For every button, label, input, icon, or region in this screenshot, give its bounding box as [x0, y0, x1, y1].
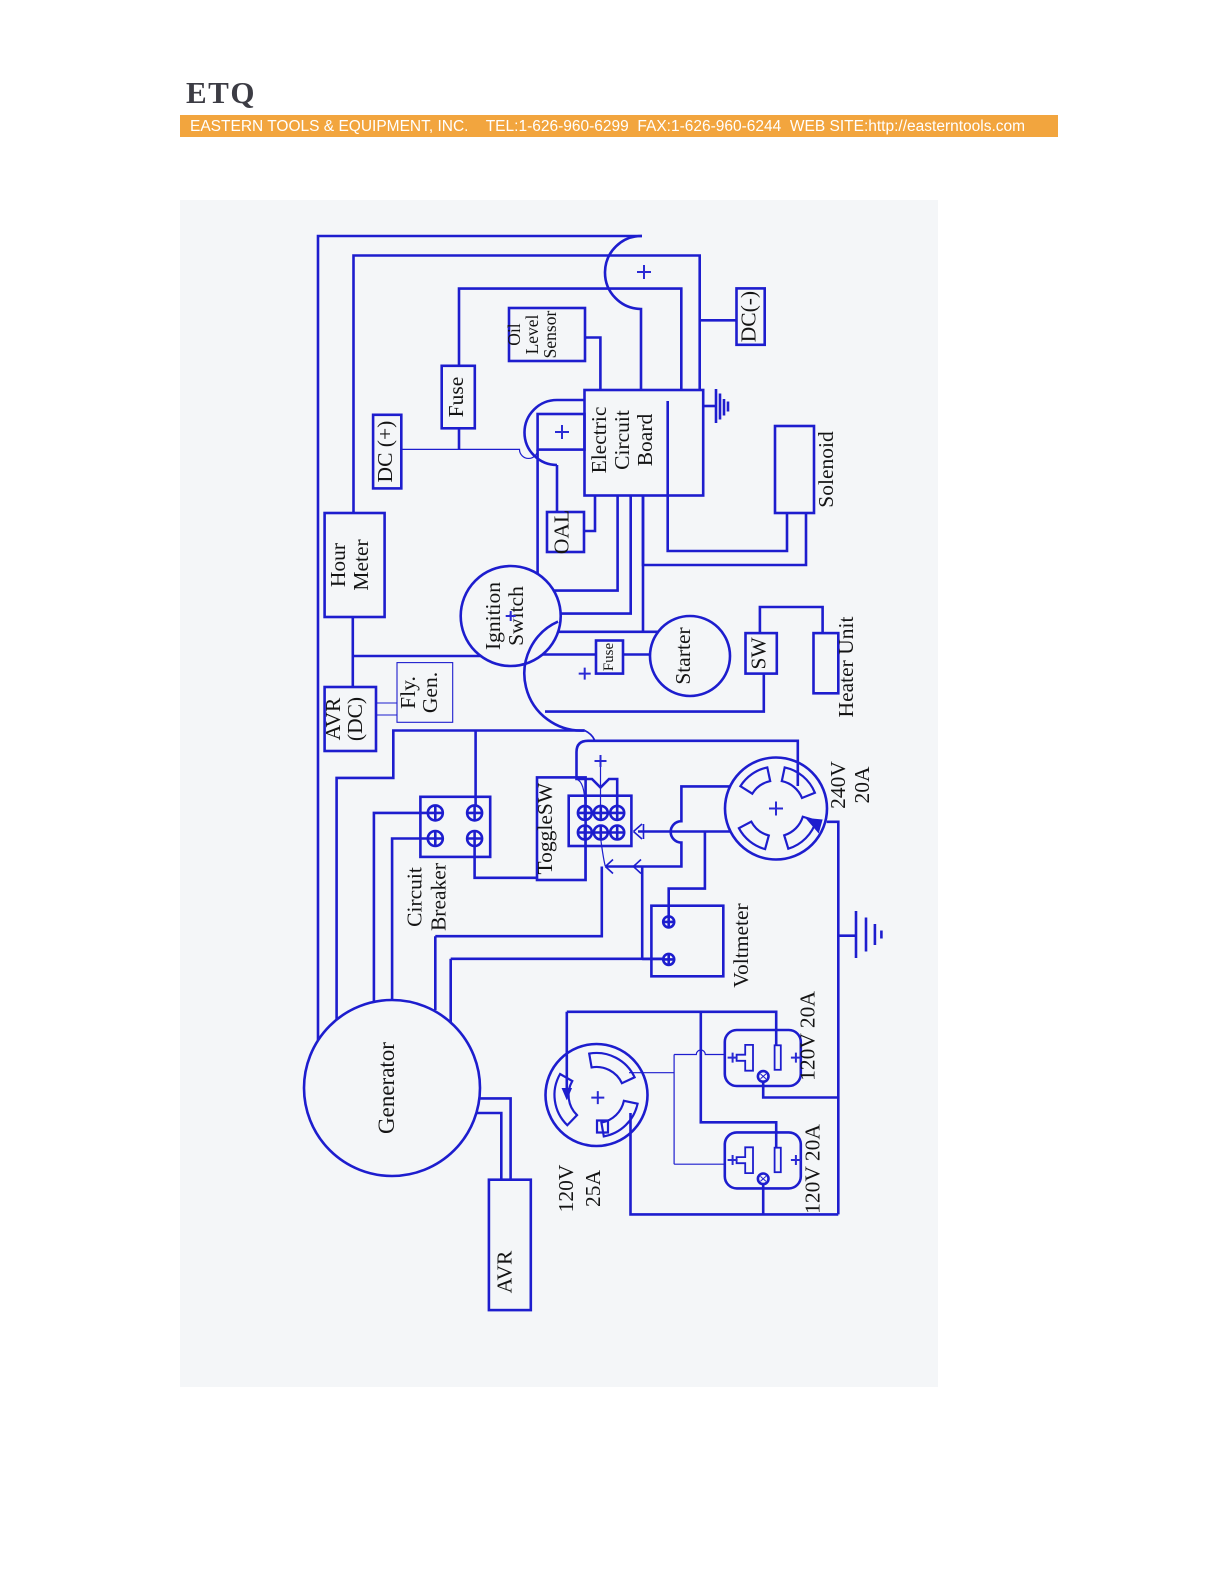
svg-text:25A: 25A	[581, 1170, 605, 1208]
svg-text:Sensor: Sensor	[540, 311, 560, 359]
node + ignition center	[506, 611, 516, 621]
svg-text:EASTERN TOOLS & EQUIPMENT, INC: EASTERN TOOLS & EQUIPMENT, INC. TEL:1-62…	[190, 118, 1025, 135]
svg-text:Fuse: Fuse	[601, 642, 617, 671]
arrow into toggle (H1)	[634, 824, 644, 839]
stub: toggle left contact to corner	[577, 779, 585, 805]
electric circuit board box U1	[585, 390, 704, 496]
ECB ground symbol	[703, 405, 716, 408]
wire: battery + bus top-left long line	[318, 236, 642, 1040]
wire: 25A feed from top bus	[565, 1012, 568, 1093]
AVR box	[489, 1180, 531, 1310]
wire: flylead node to toggle middle contact	[585, 731, 595, 741]
svg-text:Heater Unit: Heater Unit	[834, 617, 858, 718]
svg-text:Solenoid: Solenoid	[814, 431, 838, 508]
wire: generator neutral / voltmeter bottom	[641, 867, 644, 959]
wire: hour meter to AVR(DC) with ignition branch	[351, 617, 354, 687]
wire: duplex1 ground to rail	[763, 1082, 838, 1098]
node + duplex2 edges	[728, 1155, 738, 1165]
top bus to duplex1	[567, 1012, 776, 1046]
toggle switch contact box	[569, 796, 632, 846]
25A slot bottom-right hook	[597, 1101, 638, 1137]
arrows on neutral line	[605, 860, 641, 874]
25A slot top	[589, 1053, 634, 1083]
wire: breaker bottom-left to generator	[392, 839, 428, 1001]
node + 240V center	[769, 802, 783, 816]
svg-text:Ignition: Ignition	[481, 582, 505, 650]
TEXT LABELS (rotated)	[321, 291, 874, 1293]
240V receptacle body	[725, 758, 827, 860]
breaker contacts	[428, 805, 482, 846]
svg-text:Electric: Electric	[587, 407, 611, 474]
duplex2 bar slot	[775, 1148, 781, 1173]
wire hop over two verticals (top center)	[605, 236, 642, 390]
fuse F1 box	[442, 366, 475, 429]
wire: duplex2 ground to bottom rail	[762, 1184, 765, 1214]
ignition flylead arc	[524, 622, 584, 731]
wire: oil sensor to ECB	[585, 338, 600, 391]
wire: 240V right pin to main neutral rail	[827, 822, 839, 1215]
240V feed arrowhead	[807, 819, 823, 833]
240V slot SW	[739, 822, 769, 850]
25A slot left	[554, 1074, 577, 1125]
diagram background panel	[180, 200, 938, 1387]
svg-text:Fly.: Fly.	[396, 676, 420, 709]
svg-text:OAL: OAL	[550, 510, 574, 554]
wire: 240V neutral from outlet down-left with hop	[605, 786, 730, 866]
duplex1 bar slot	[775, 1045, 781, 1070]
duplex outlet 2 body	[725, 1132, 801, 1188]
toggle contacts	[578, 806, 624, 840]
svg-text:AVR: AVR	[321, 697, 345, 740]
wire: 25A ground slot to bottom rail	[631, 1113, 839, 1214]
duplex1 ground pin	[758, 1071, 769, 1082]
wires: AVR to fly gen	[376, 702, 397, 704]
voltmeter terminals	[663, 916, 674, 927]
svg-text:Meter: Meter	[349, 539, 373, 590]
wire: OAL to ECB	[584, 496, 595, 532]
svg-text:Board: Board	[633, 413, 657, 466]
stub: toggle mid-bottom contact to neutral	[601, 840, 606, 867]
node + toggle feed	[595, 755, 607, 767]
wire: voltmeter top tap	[669, 832, 705, 917]
ECB internal rail	[666, 401, 669, 496]
node + 25A center	[591, 1091, 604, 1104]
wire: generator line to toggle neutral node	[435, 867, 602, 937]
circuit breaker contact box	[420, 797, 490, 857]
wire: ignition to starter (upper)	[558, 630, 658, 633]
chassis ground (right)	[838, 934, 856, 937]
node + duplex1 edges	[728, 1053, 738, 1063]
DC(-) terminal box	[737, 288, 765, 344]
duplex2 ground pin	[758, 1174, 769, 1185]
duplex1 T slot	[737, 1045, 753, 1071]
svg-text:(DC): (DC)	[343, 697, 367, 741]
wire: ECB to solenoid (outer)	[643, 496, 806, 566]
svg-text:120V 20A: 120V 20A	[796, 991, 820, 1081]
wire: ECB pin to ignition upper	[554, 496, 618, 591]
svg-text:Hour: Hour	[326, 543, 350, 587]
svg-text:120V 20A: 120V 20A	[801, 1124, 825, 1214]
25A twistlock receptacle body	[546, 1044, 648, 1146]
wire: SW-heater bridge	[760, 607, 823, 633]
svg-text:Level: Level	[522, 314, 542, 354]
wire: ECB rail to solenoid (inner)	[668, 496, 787, 552]
generator G circle	[304, 1000, 480, 1176]
svg-text:Voltmeter: Voltmeter	[729, 903, 753, 987]
wire: branch to breaker contact	[474, 731, 477, 806]
SW box	[746, 633, 777, 674]
svg-text:Breaker: Breaker	[427, 863, 451, 931]
heater unit box	[814, 633, 839, 693]
240V slot NW	[740, 767, 770, 793]
toggle switch label box	[537, 777, 586, 880]
DC(+) terminal box	[373, 415, 401, 489]
svg-text:Gen.: Gen.	[418, 672, 442, 713]
wire: line A feed to toggle/CB	[337, 731, 585, 1021]
starter motor circle M	[650, 616, 730, 696]
wire: DC(-) branch	[700, 319, 737, 322]
thin tie: 25A to duplex slots	[629, 1050, 726, 1164]
branch to duplex2	[701, 1012, 776, 1149]
connector block on ECB	[538, 414, 585, 450]
svg-text:20A: 20A	[850, 766, 874, 804]
hour meter box	[325, 513, 385, 617]
wire: line2 hourmeter to ECB/DC-	[354, 256, 700, 514]
wire: ignition to fuse2 to starter	[543, 653, 596, 656]
svg-text:DC (+): DC (+)	[373, 421, 397, 483]
svg-text:Oil: Oil	[504, 323, 524, 346]
wire: line3 fuse to ECB	[459, 289, 681, 390]
OAL box	[547, 512, 584, 552]
AVR (DC) box	[325, 687, 376, 751]
plus node markers	[506, 265, 801, 1165]
oil level sensor box	[509, 308, 585, 361]
generator right pins to AVR	[479, 1098, 510, 1179]
wire: H1 toggle to 240V receptacle	[638, 830, 730, 833]
wire: ECB pin to starter line	[642, 496, 645, 632]
node + charge coil	[555, 425, 569, 439]
thin DC+ rail with hop	[401, 449, 537, 458]
svg-text:Circuit: Circuit	[610, 410, 634, 470]
svg-text:AVR: AVR	[493, 1250, 517, 1293]
company banner	[180, 115, 1058, 137]
svg-text:240V: 240V	[826, 761, 850, 809]
node + charge coil loop above ECB	[557, 399, 585, 402]
svg-text:Fuse: Fuse	[444, 377, 468, 418]
svg-text:120V: 120V	[554, 1164, 578, 1212]
wire: connector block to ignition switch	[536, 450, 539, 574]
voltmeter box	[651, 906, 723, 977]
fly gen box	[397, 663, 453, 723]
node + starter fuse	[579, 668, 591, 680]
solenoid box	[775, 426, 814, 513]
240V slot SE	[784, 817, 816, 849]
duplex outlet 1 body	[725, 1030, 801, 1086]
svg-text:Generator: Generator	[374, 1042, 399, 1134]
duplex2 T slot	[737, 1147, 753, 1173]
wire: ECB pin to ignition lower	[561, 496, 631, 614]
ignition switch circle S1	[461, 566, 561, 666]
svg-text:ToggleSW: ToggleSW	[533, 782, 557, 874]
stub: toggle bottom-left contact	[584, 840, 586, 881]
wire: voltmeter bottom stub	[642, 958, 663, 960]
fuse F2 box	[596, 641, 623, 674]
wire: fuse to DC+ rail	[458, 428, 461, 449]
wire: 240V hot from toggle right contact	[577, 741, 798, 806]
svg-text:Starter: Starter	[671, 627, 695, 684]
240V slot NE	[782, 767, 815, 798]
svg-text:DC(-): DC(-)	[737, 291, 761, 342]
wire: breaker top-left to generator	[374, 813, 428, 1002]
svg-text:ETQ: ETQ	[186, 75, 256, 110]
wire: breaker bottom-right to toggle box	[475, 846, 537, 878]
wire: SW bottom return	[545, 674, 764, 712]
node + top	[637, 265, 651, 279]
svg-text:Circuit: Circuit	[403, 867, 427, 927]
svg-text:SW: SW	[747, 637, 771, 670]
